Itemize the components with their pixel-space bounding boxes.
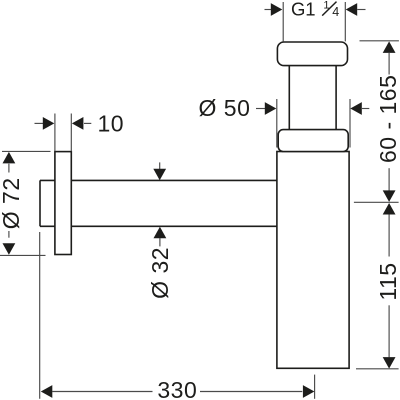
svg-text:4: 4	[332, 5, 339, 19]
inlet pipe (vertical tube)	[289, 66, 336, 130]
wall flange plate	[55, 152, 71, 255]
dimension Ø50 collar diameter	[199, 95, 370, 147]
trap body cup	[277, 152, 349, 369]
svg-text:Ø 72: Ø 72	[0, 177, 24, 229]
svg-text:Ø 32: Ø 32	[147, 247, 173, 299]
svg-text:60 - 165: 60 - 165	[375, 75, 400, 163]
top collar nut	[277, 42, 347, 66]
svg-text:115: 115	[375, 262, 400, 300]
svg-text:330: 330	[157, 377, 197, 400]
dimension 10 flange thickness	[35, 110, 125, 151]
svg-text:G1: G1	[291, 0, 315, 19]
escutcheon flange on inlet pipe	[278, 130, 348, 152]
dimension 115 body height	[356, 203, 400, 369]
dimension G1 1/4 thread	[265, 0, 366, 41]
outlet pipe (horizontal tube to wall)	[40, 180, 278, 226]
dimension 330 overall length	[40, 232, 315, 400]
svg-text:10: 10	[98, 110, 125, 136]
dimension 60-165 adjustable height	[354, 41, 400, 203]
dimension Ø32 pipe diameter	[147, 162, 173, 298]
svg-text:Ø 50: Ø 50	[199, 95, 251, 121]
dimension Ø72 wall flange diameter	[0, 151, 51, 255]
